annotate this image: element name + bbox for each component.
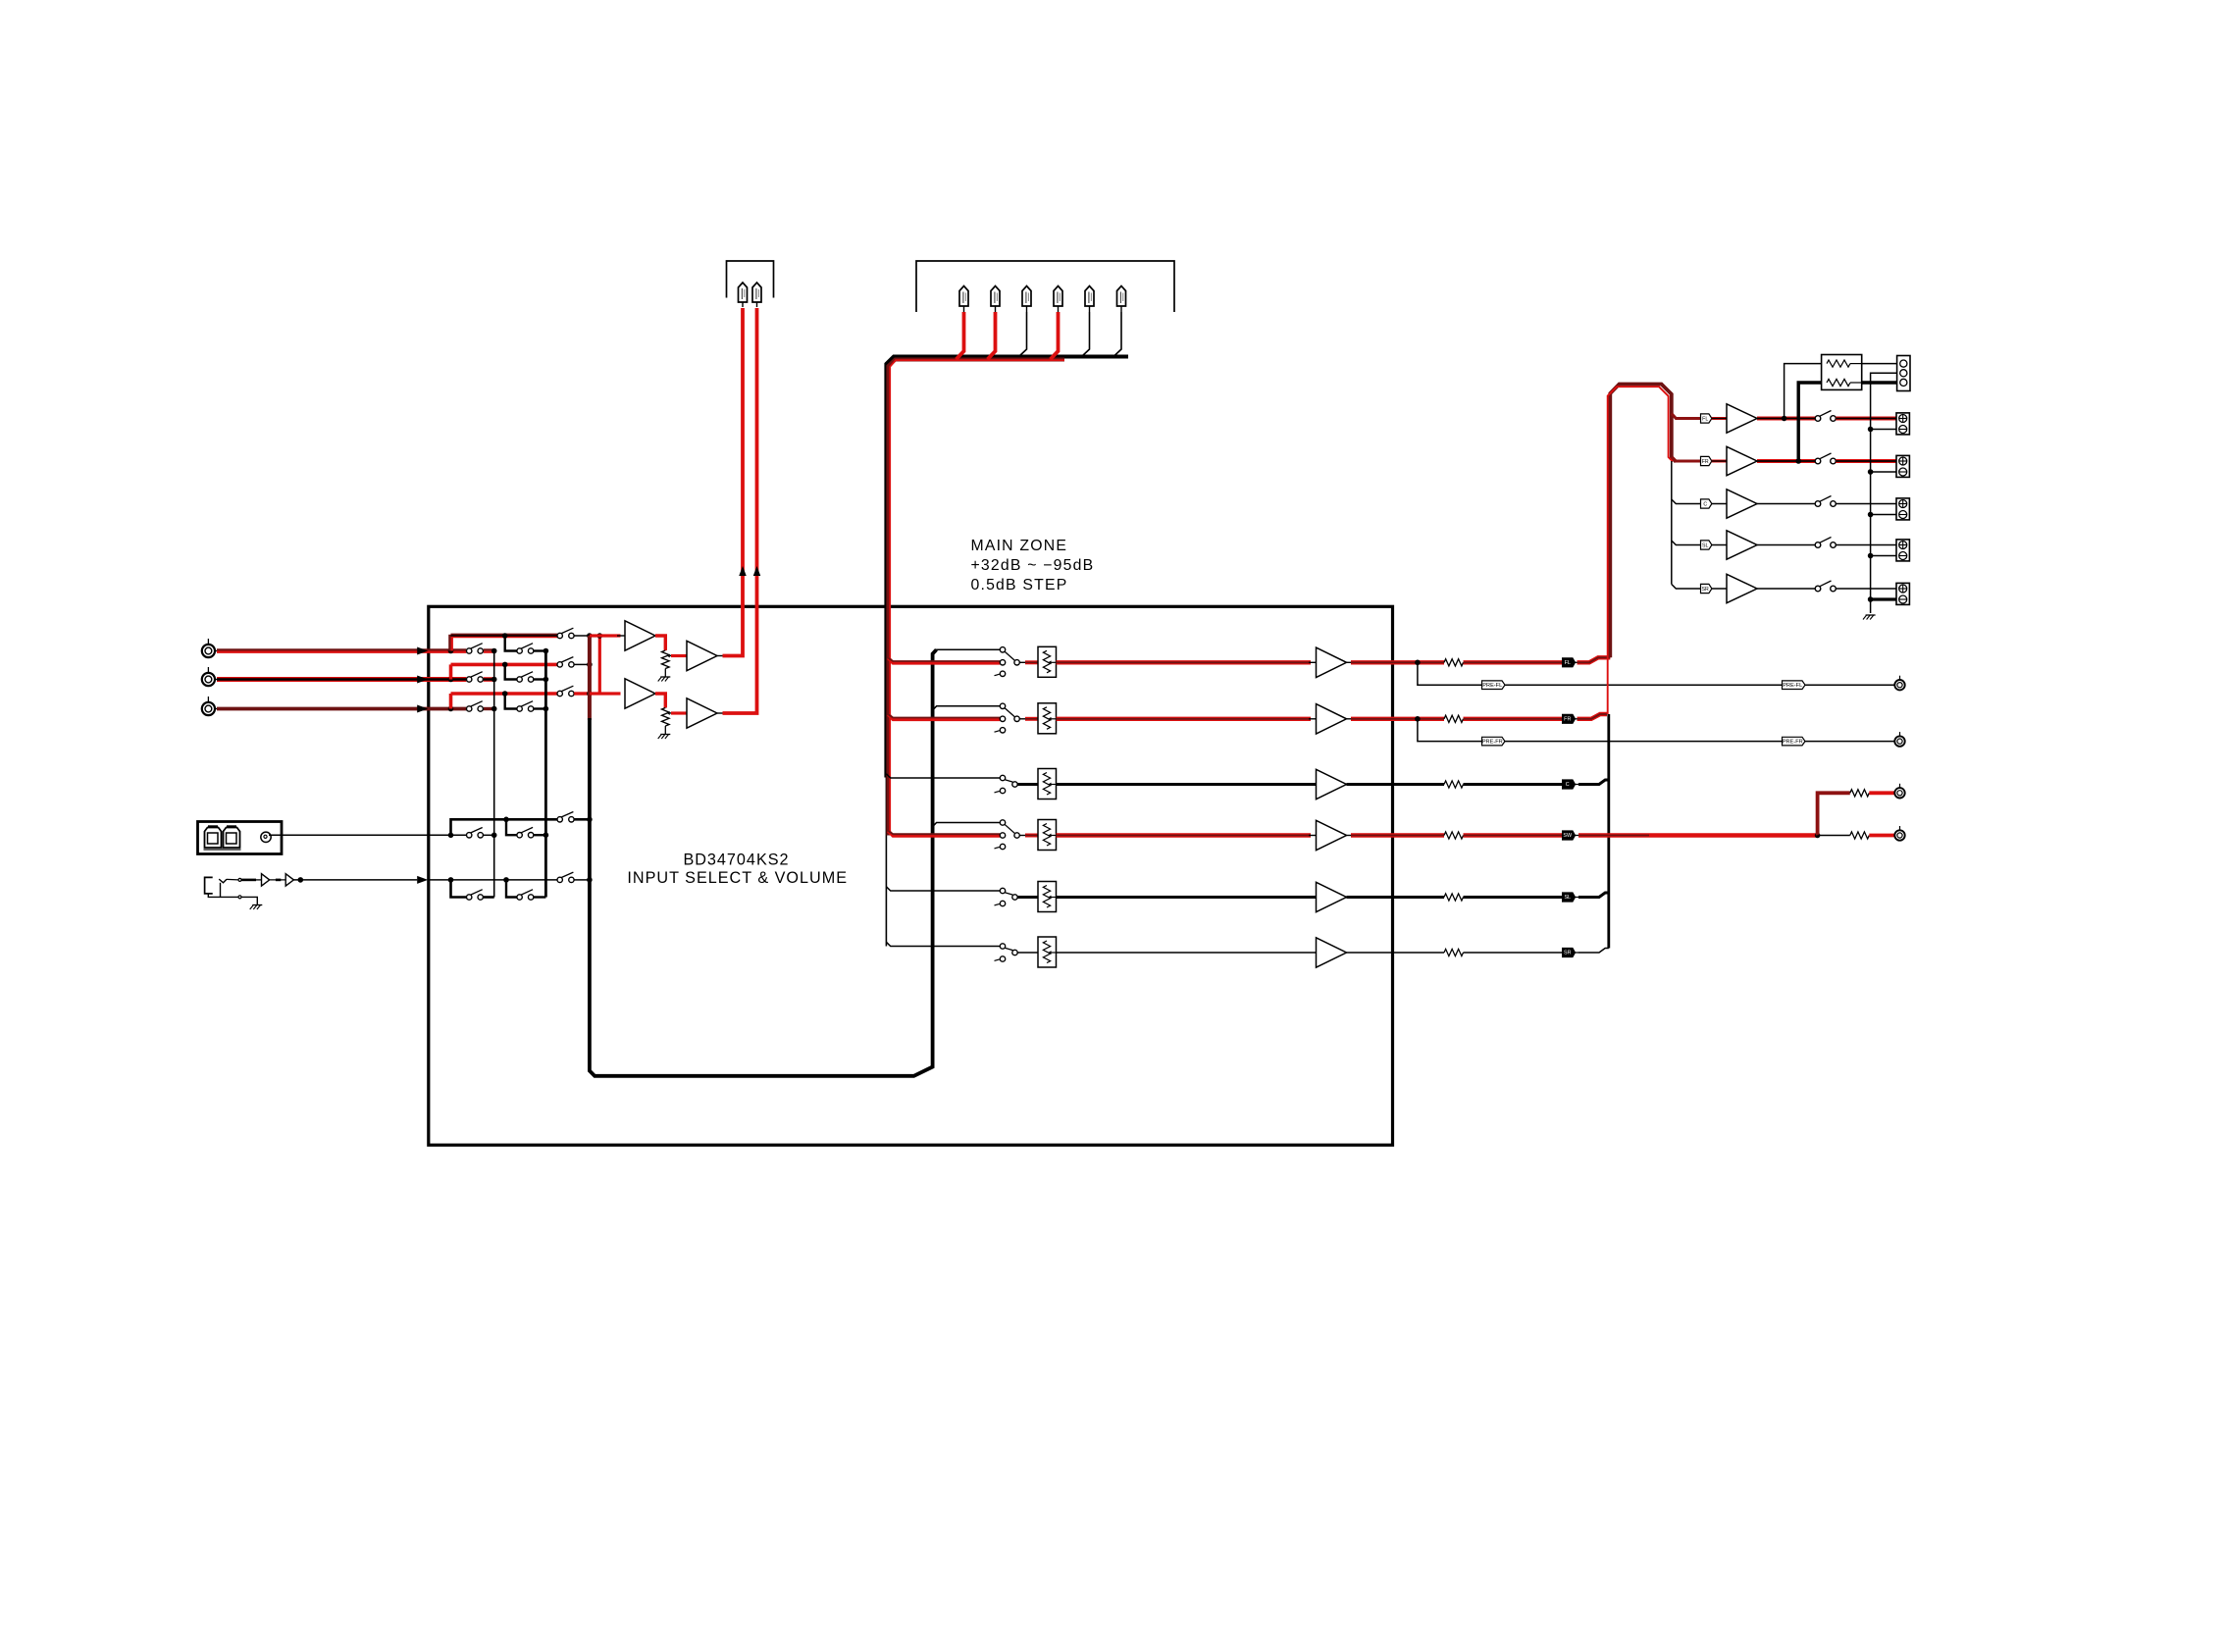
wire red input row 2 [888, 714, 1000, 719]
switch optical col3 [557, 817, 562, 822]
output jack SW1 [1894, 788, 1904, 798]
svg-text:INPUT SELECT & VOLUME: INPUT SELECT & VOLUME [627, 869, 848, 887]
switch optical col2 [517, 833, 522, 838]
arrow input row 1 [417, 647, 428, 655]
wire row 2 col2 to bus [534, 678, 546, 680]
wire riser branch to speaker FR row [1672, 457, 1701, 461]
volume attenuator block row 3 [1038, 769, 1057, 800]
optical connector icon 2 [224, 828, 240, 849]
wire row 1 col2 to bus [534, 649, 546, 651]
wire CN2 pin 4 lead [1051, 312, 1059, 359]
wire power amp FL output [1757, 417, 1815, 421]
wire col2 select bus [544, 651, 547, 898]
net flag row 3 C [1563, 780, 1576, 789]
wire input row 1 from jack to U1 [217, 648, 466, 650]
headphone sleeve line [208, 894, 238, 898]
volume attenuator block row 1 [1038, 646, 1057, 677]
wire col3 select bus maroon top [588, 636, 592, 720]
switch row 2 col2 [517, 677, 522, 682]
headphone jack lever [220, 883, 222, 898]
wire input row 2 from jack to U1 [217, 677, 466, 682]
junction headphone col3 bus [587, 877, 593, 883]
wire feeder row 3 stub from bus [886, 774, 1000, 778]
resistor network box [1822, 355, 1862, 390]
svg-text:C: C [1703, 502, 1707, 508]
connector CN1 bracket [727, 261, 774, 298]
switch optical col1 [467, 833, 472, 838]
net flag speaker SL [1701, 541, 1712, 549]
wire pole row 5 to volume [1017, 896, 1038, 899]
headphone jack J5 bracket [205, 877, 213, 894]
wire SW2 to jack [1869, 834, 1894, 838]
wire speaker FR to power amp [1712, 460, 1727, 463]
headphone sleeve circle [238, 896, 241, 899]
svg-text:SL: SL [1702, 543, 1708, 549]
wire switch SL to terminal [1836, 544, 1896, 546]
junction row 1 col2 bus [543, 648, 549, 654]
wire optical bypass line [451, 819, 558, 835]
wire line1 to opamp1 [590, 634, 621, 637]
switch speaker SR [1815, 586, 1821, 592]
svg-text:FR: FR [1702, 459, 1709, 465]
wire VR2 wiper to U3B [671, 711, 687, 714]
potentiometer VR2 [662, 708, 670, 727]
wire speaker C to power amp [1712, 503, 1727, 505]
switch row 2 col1 [467, 677, 472, 682]
switch speaker FL [1815, 416, 1821, 422]
op-amp buffer U4A [262, 874, 270, 886]
junction row 3 col1 bus [492, 706, 497, 712]
wire pole row 6 to volume [1017, 952, 1038, 954]
svg-text:PRE-FR: PRE-FR [1482, 740, 1503, 746]
speaker terminal FL [1896, 413, 1909, 435]
wire col3 select bus black lower + return path [590, 649, 937, 1076]
connector CN2 pin 2 [991, 286, 1000, 307]
svg-text:SW: SW [1563, 833, 1573, 839]
wire volume row 3 to op-amp [1057, 783, 1317, 786]
wire C row hook to bus [1578, 780, 1609, 785]
speaker terminal SL [1896, 540, 1909, 561]
connector CN3 headphone out [1897, 356, 1910, 391]
net flag speaker C [1701, 499, 1712, 508]
junction top line row 1 drop [502, 633, 508, 639]
wire row 2 resistor to flag [1464, 717, 1563, 721]
junction headphone elbow col1 [448, 877, 454, 883]
RCA jack J2 [202, 673, 215, 686]
wire switch FL to terminal [1836, 417, 1896, 421]
switch row 1 col1 [467, 648, 472, 653]
speaker terminal SR [1896, 583, 1909, 604]
headphone jack tip contact [219, 879, 227, 883]
switch speaker SL [1815, 542, 1821, 548]
wire FL ramp to riser [1578, 657, 1611, 662]
switch speaker FR [1815, 458, 1821, 464]
wire U2B out to CN1 pin1 [717, 655, 724, 657]
junction red tee top [597, 633, 603, 639]
junction ground bus C [1868, 512, 1874, 518]
wire switch C to terminal [1836, 503, 1896, 505]
coax jack icon [261, 832, 271, 842]
svg-text:SL: SL [1564, 895, 1571, 901]
wire volume row 6 to op-amp [1057, 952, 1317, 954]
arrow input row 3 [417, 705, 428, 713]
wire volume row 2 to op-amp [1057, 717, 1312, 721]
net label PRE-FL b [1783, 681, 1806, 690]
wire elbow up row 1 [448, 635, 450, 651]
wire op-amp row 2 output [1347, 718, 1354, 720]
wire power amp SL output [1757, 544, 1815, 546]
junction input row 2 at elbow [448, 677, 454, 683]
net flag row 1 FL [1563, 658, 1576, 667]
wire terminal FL minus to ground bus [1871, 429, 1896, 431]
speaker terminal FR [1896, 455, 1909, 477]
wire feeder row 2 from select bus [933, 706, 1001, 710]
junction speaker FL feedback [1782, 416, 1787, 422]
resistor SW1 [1850, 790, 1870, 797]
switch row 1 col3 [557, 633, 562, 638]
wire row 1 resistor to flag [1464, 660, 1563, 664]
junction input row 3 at elbow [448, 706, 454, 712]
wire CN2 pin 6 lead [1113, 312, 1121, 357]
wire pole row 2 to volume [1019, 718, 1026, 720]
wire red input row 1 [888, 658, 1000, 663]
wire power amp C output [1757, 503, 1815, 505]
junction ground bus SR [1868, 596, 1874, 602]
IC U1 BD34704KS2 outline box [429, 606, 1393, 1145]
wire optical row to U1 [269, 834, 466, 836]
junction optical bypass drop [503, 817, 509, 823]
junction optical col1 bus [492, 833, 497, 839]
switch headphone col3 [557, 877, 562, 882]
connector CN2 pin 6 [1117, 286, 1126, 307]
wire SL row hook to bus [1578, 893, 1609, 898]
wire buffer link [270, 879, 286, 881]
junction SW split [1815, 833, 1821, 839]
ground VR1 [660, 676, 670, 678]
arrow up CN1 pin1 wire [739, 566, 747, 576]
svg-text:SR: SR [1564, 951, 1572, 956]
wire row 4 resistor to flag [1464, 833, 1563, 837]
junction headphone elbow col2 [503, 877, 509, 883]
wire terminal SL minus to ground bus [1871, 555, 1896, 557]
wire VR2 bottom to ground [664, 726, 666, 735]
junction optical row elbow [448, 833, 454, 839]
net label PRE-FR b [1783, 737, 1806, 746]
wire op-amp row 5 output [1347, 896, 1445, 899]
connector CN2 bracket [916, 261, 1174, 312]
junction ground bus SL [1868, 553, 1874, 559]
net flag speaker FR [1701, 456, 1712, 465]
svg-text:C: C [1566, 782, 1570, 788]
wire feeder branch speaker SL [1672, 541, 1701, 545]
svg-text:FL: FL [1702, 417, 1708, 423]
output jack SW2 [1894, 830, 1904, 840]
wire PRE-FL net [1418, 662, 1894, 685]
wire feeder row 6 stub from bus [886, 942, 1000, 946]
junction row 2 col3 bus [587, 662, 593, 668]
volume attenuator block row 5 [1038, 882, 1057, 912]
switch row 1 col2 [517, 648, 522, 653]
wire optical col2 drop [506, 819, 517, 835]
wire headphone col2 sub [506, 880, 517, 898]
wire headphone col1 sub [451, 880, 467, 898]
wire FR feedback to resistor network thick [1798, 383, 1821, 461]
svg-text:MAIN ZONE: MAIN ZONE [971, 538, 1068, 554]
potentiometer VR1 [662, 650, 670, 669]
net flag row 4 SW [1563, 831, 1576, 840]
wire speaker surround feeder vertical [1671, 461, 1673, 585]
op-amp row 4 [1317, 820, 1347, 850]
resistor RN2 [1827, 379, 1850, 386]
wire op-amp row 4 output [1347, 835, 1354, 837]
junction row 1 col1 bus [492, 648, 497, 654]
connector CN1 pin 2 [752, 283, 761, 302]
wire U3B out to CN1 pin2 [717, 712, 724, 714]
junction row 1 output [1415, 660, 1421, 666]
resistor row 6 [1444, 949, 1464, 955]
resistor row 3 [1444, 781, 1464, 788]
wire terminal FR minus to ground bus [1871, 471, 1896, 473]
junction ground bus FL [1868, 427, 1874, 433]
junction top line row 3 drop [502, 691, 508, 697]
wire col1 select bus [493, 651, 495, 898]
wire terminal SR minus to ground bus [1871, 597, 1896, 600]
resistor row 1 [1444, 659, 1464, 666]
wire speaker FL to power amp [1712, 417, 1727, 420]
wire main L/R riser loop maroon [1610, 385, 1676, 658]
RCA jack J3 [202, 702, 215, 715]
svg-text:0.5dB STEP: 0.5dB STEP [971, 577, 1068, 594]
op-amp buffer U4B [285, 874, 293, 886]
wire elbow up row 2 [449, 664, 453, 679]
wire RN2 to CN3 pin3 thick [1862, 381, 1897, 384]
arrow up CN1 pin2 wire [753, 566, 761, 576]
connector CN2 pin 4 [1054, 286, 1062, 307]
switch row 3 col3 [557, 691, 562, 696]
wire pole row 1 to volume [1019, 661, 1026, 663]
wire row 2 col3 to bus [574, 663, 590, 665]
wire riser branch to speaker FL row [1672, 414, 1701, 419]
junction row 3 col2 bus [543, 706, 549, 712]
svg-text:BD34704KS2: BD34704KS2 [683, 852, 789, 869]
junction row 2 col1 bus [492, 677, 497, 683]
wire feeder row 5 stub from bus [886, 887, 1000, 891]
junction ground bus FR [1868, 469, 1874, 475]
headphone tip contact circle [238, 878, 241, 881]
switch row 3 col2 [517, 706, 522, 711]
wire headphone col2 to bus [534, 896, 546, 898]
wire row 3 col3 to bus [574, 692, 590, 695]
connector CN2 pin 5 [1085, 286, 1094, 307]
svg-text:FL: FL [1565, 660, 1571, 666]
wire row 6 resistor to flag [1464, 952, 1563, 954]
RCA jack J1 [202, 645, 215, 657]
switch headphone col1 [467, 895, 472, 900]
wire row 5 resistor to flag [1464, 896, 1563, 899]
wire col2 drop row 1 [505, 636, 517, 651]
ground VR2 [660, 734, 670, 736]
wire power amp SR output [1757, 588, 1815, 590]
wire row 1 col3 to bus [574, 635, 590, 637]
power amp FL [1727, 404, 1757, 433]
wire col2 drop row 3 [505, 694, 517, 709]
switch headphone col2 [517, 895, 522, 900]
wire CN2 pin 3 lead [1019, 312, 1027, 357]
wire CN3 pin2 to ground bus [1871, 373, 1897, 613]
wire op-amp row 6 output [1347, 952, 1445, 954]
wire CN2 pin 1 lead [957, 312, 964, 359]
junction optical col3 bus [587, 817, 593, 823]
op-amp U3B [687, 698, 717, 728]
wire SR row hook to bus [1578, 949, 1609, 954]
wire volume row 4 to op-amp [1057, 833, 1312, 837]
ground speaker bus [1866, 614, 1876, 616]
op-amp row 1 [1317, 647, 1347, 677]
arrow input row 2 [417, 676, 428, 684]
switch mute row 4 [1000, 820, 1005, 825]
wire headphone row to U1 [293, 879, 417, 881]
svg-text:PRE-FR: PRE-FR [1783, 740, 1803, 746]
wire row 3 col2 to bus [534, 707, 546, 709]
switch row 3 col1 [467, 706, 472, 711]
volume attenuator block row 4 [1038, 820, 1057, 851]
op-amp U2B [687, 641, 717, 670]
junction top line row 2 drop [502, 662, 508, 668]
wire SW2 branch [1818, 835, 1850, 837]
switch mute row 5 [1000, 888, 1005, 893]
power amp FR [1727, 446, 1757, 475]
net flag row 5 SL [1563, 893, 1576, 902]
svg-text:PRE-FL: PRE-FL [1783, 683, 1802, 689]
op-amp row 5 [1317, 882, 1347, 911]
wire headphone row inside U1 [429, 879, 557, 881]
output jack PRE-FR [1894, 736, 1904, 746]
wire U2A out to pot [655, 636, 665, 650]
wire power amp FR output [1757, 459, 1815, 463]
net flag row 2 FR [1563, 714, 1576, 723]
op-amp U2A [625, 621, 655, 650]
switch mute row 6 [1000, 944, 1005, 949]
wire switch SR to terminal [1836, 588, 1896, 590]
wire sleeve to ground [241, 897, 257, 904]
op-amp row 3 [1317, 769, 1347, 799]
arrow headphone row [417, 876, 428, 884]
wire feeder row 4 from select bus [933, 823, 1001, 827]
wire VR1 wiper to U2B [671, 654, 687, 657]
wire pole row 3 to volume [1017, 783, 1038, 786]
connector CN2 pin 1 [959, 286, 968, 307]
wire SW1 to jack [1869, 791, 1894, 795]
net flag speaker SR [1701, 584, 1712, 593]
wire U3A out to pot [655, 694, 665, 708]
wire red tee to headphone amp L [598, 636, 601, 694]
wire row 3 resistor to flag [1464, 783, 1563, 786]
net label PRE-FR a [1482, 737, 1506, 746]
wire feeder branch speaker SR [1672, 585, 1701, 590]
speaker terminal C [1896, 498, 1909, 520]
optical connector icon 1 [205, 828, 222, 849]
op-amp row 2 [1317, 704, 1347, 734]
wire red input row 4 [888, 831, 1000, 836]
wire top line row 1 [451, 634, 558, 636]
optical input module J4 outline [198, 822, 283, 854]
wire pole row 4 to volume [1019, 835, 1026, 837]
wire speaker SL to power amp [1712, 544, 1727, 546]
svg-text:SR: SR [1702, 587, 1709, 593]
wire line3 to opamp3 [590, 692, 621, 695]
junction row 2 output [1415, 716, 1421, 722]
wire terminal C minus to ground bus [1871, 514, 1896, 516]
op-amp U3A [625, 679, 655, 708]
wire FR ramp to riser [1578, 714, 1608, 719]
op-amp row 6 [1317, 938, 1347, 967]
volume attenuator block row 2 [1038, 703, 1057, 734]
resistor RN1 [1827, 360, 1850, 367]
wire VR1 bottom to ground [664, 669, 666, 678]
wire mid vertical surround bus [1607, 714, 1610, 949]
junction row 3 col3 bus [587, 691, 593, 697]
power amp SL [1727, 531, 1757, 559]
wire feeder branch speaker C [1672, 499, 1701, 504]
wire op-amp row 1 output [1347, 661, 1354, 663]
wire black bus from CN2 pins 3,5,6 [886, 357, 1128, 778]
switch mute row 2 [1000, 703, 1005, 708]
net flag speaker FL [1701, 414, 1712, 423]
wire op-amp row 3 output [1347, 783, 1445, 786]
junction row 1 col3 bus [587, 633, 593, 639]
junction input row 1 at elbow [448, 648, 454, 654]
connector CN2 pin 3 [1022, 286, 1031, 307]
wire input row 3 from jack to U1 [217, 707, 466, 711]
wire tip to buffer [241, 879, 256, 882]
junction row 2 col2 bus [543, 677, 549, 683]
power amp SR [1727, 574, 1757, 602]
wire top line row 2 [451, 663, 558, 667]
wire CN2 pin 2 lead [988, 312, 996, 359]
wire black bus thin continuation to rows 5,6 [885, 775, 887, 947]
wire CN2 pin 5 lead [1082, 312, 1090, 357]
resistor row 5 [1444, 894, 1464, 901]
wire optical col2 to bus [534, 834, 546, 836]
resistor SW2 [1850, 832, 1870, 839]
connector CN1 pin 1 [739, 283, 748, 302]
svg-text:+32dB ~ −95dB: +32dB ~ −95dB [971, 557, 1095, 574]
switch row 2 col3 [557, 662, 562, 667]
wire FL feedback to resistor network [1785, 364, 1822, 419]
wire speaker SR to power amp [1712, 588, 1727, 590]
wire switch FR to terminal [1836, 459, 1896, 463]
wire PRE-FR net [1418, 719, 1894, 742]
ground headphone [252, 904, 262, 906]
svg-text:PRE-FL: PRE-FL [1482, 683, 1502, 689]
resistor row 4 [1444, 832, 1464, 839]
power amp C [1727, 490, 1757, 518]
junction optical col2 bus [543, 832, 549, 838]
switch mute row 1 [1000, 647, 1005, 652]
wire RN1 to CN3 pin1 [1862, 363, 1897, 365]
wire red bus from CN2 pins 1,2,4 [888, 360, 1064, 836]
wire feeder row 1 from select bus [933, 649, 1001, 653]
wire volume row 5 to op-amp [1057, 896, 1317, 899]
wire volume row 1 to op-amp [1057, 660, 1312, 664]
switch mute row 3 [1000, 775, 1005, 780]
switch speaker C [1815, 501, 1821, 507]
wire elbow up row 3 [449, 694, 453, 709]
wire top line row 3 [451, 692, 558, 696]
wire SW net to split junction [1578, 833, 1818, 837]
wire SW branch up [1818, 793, 1850, 835]
svg-text:FR: FR [1564, 717, 1571, 723]
